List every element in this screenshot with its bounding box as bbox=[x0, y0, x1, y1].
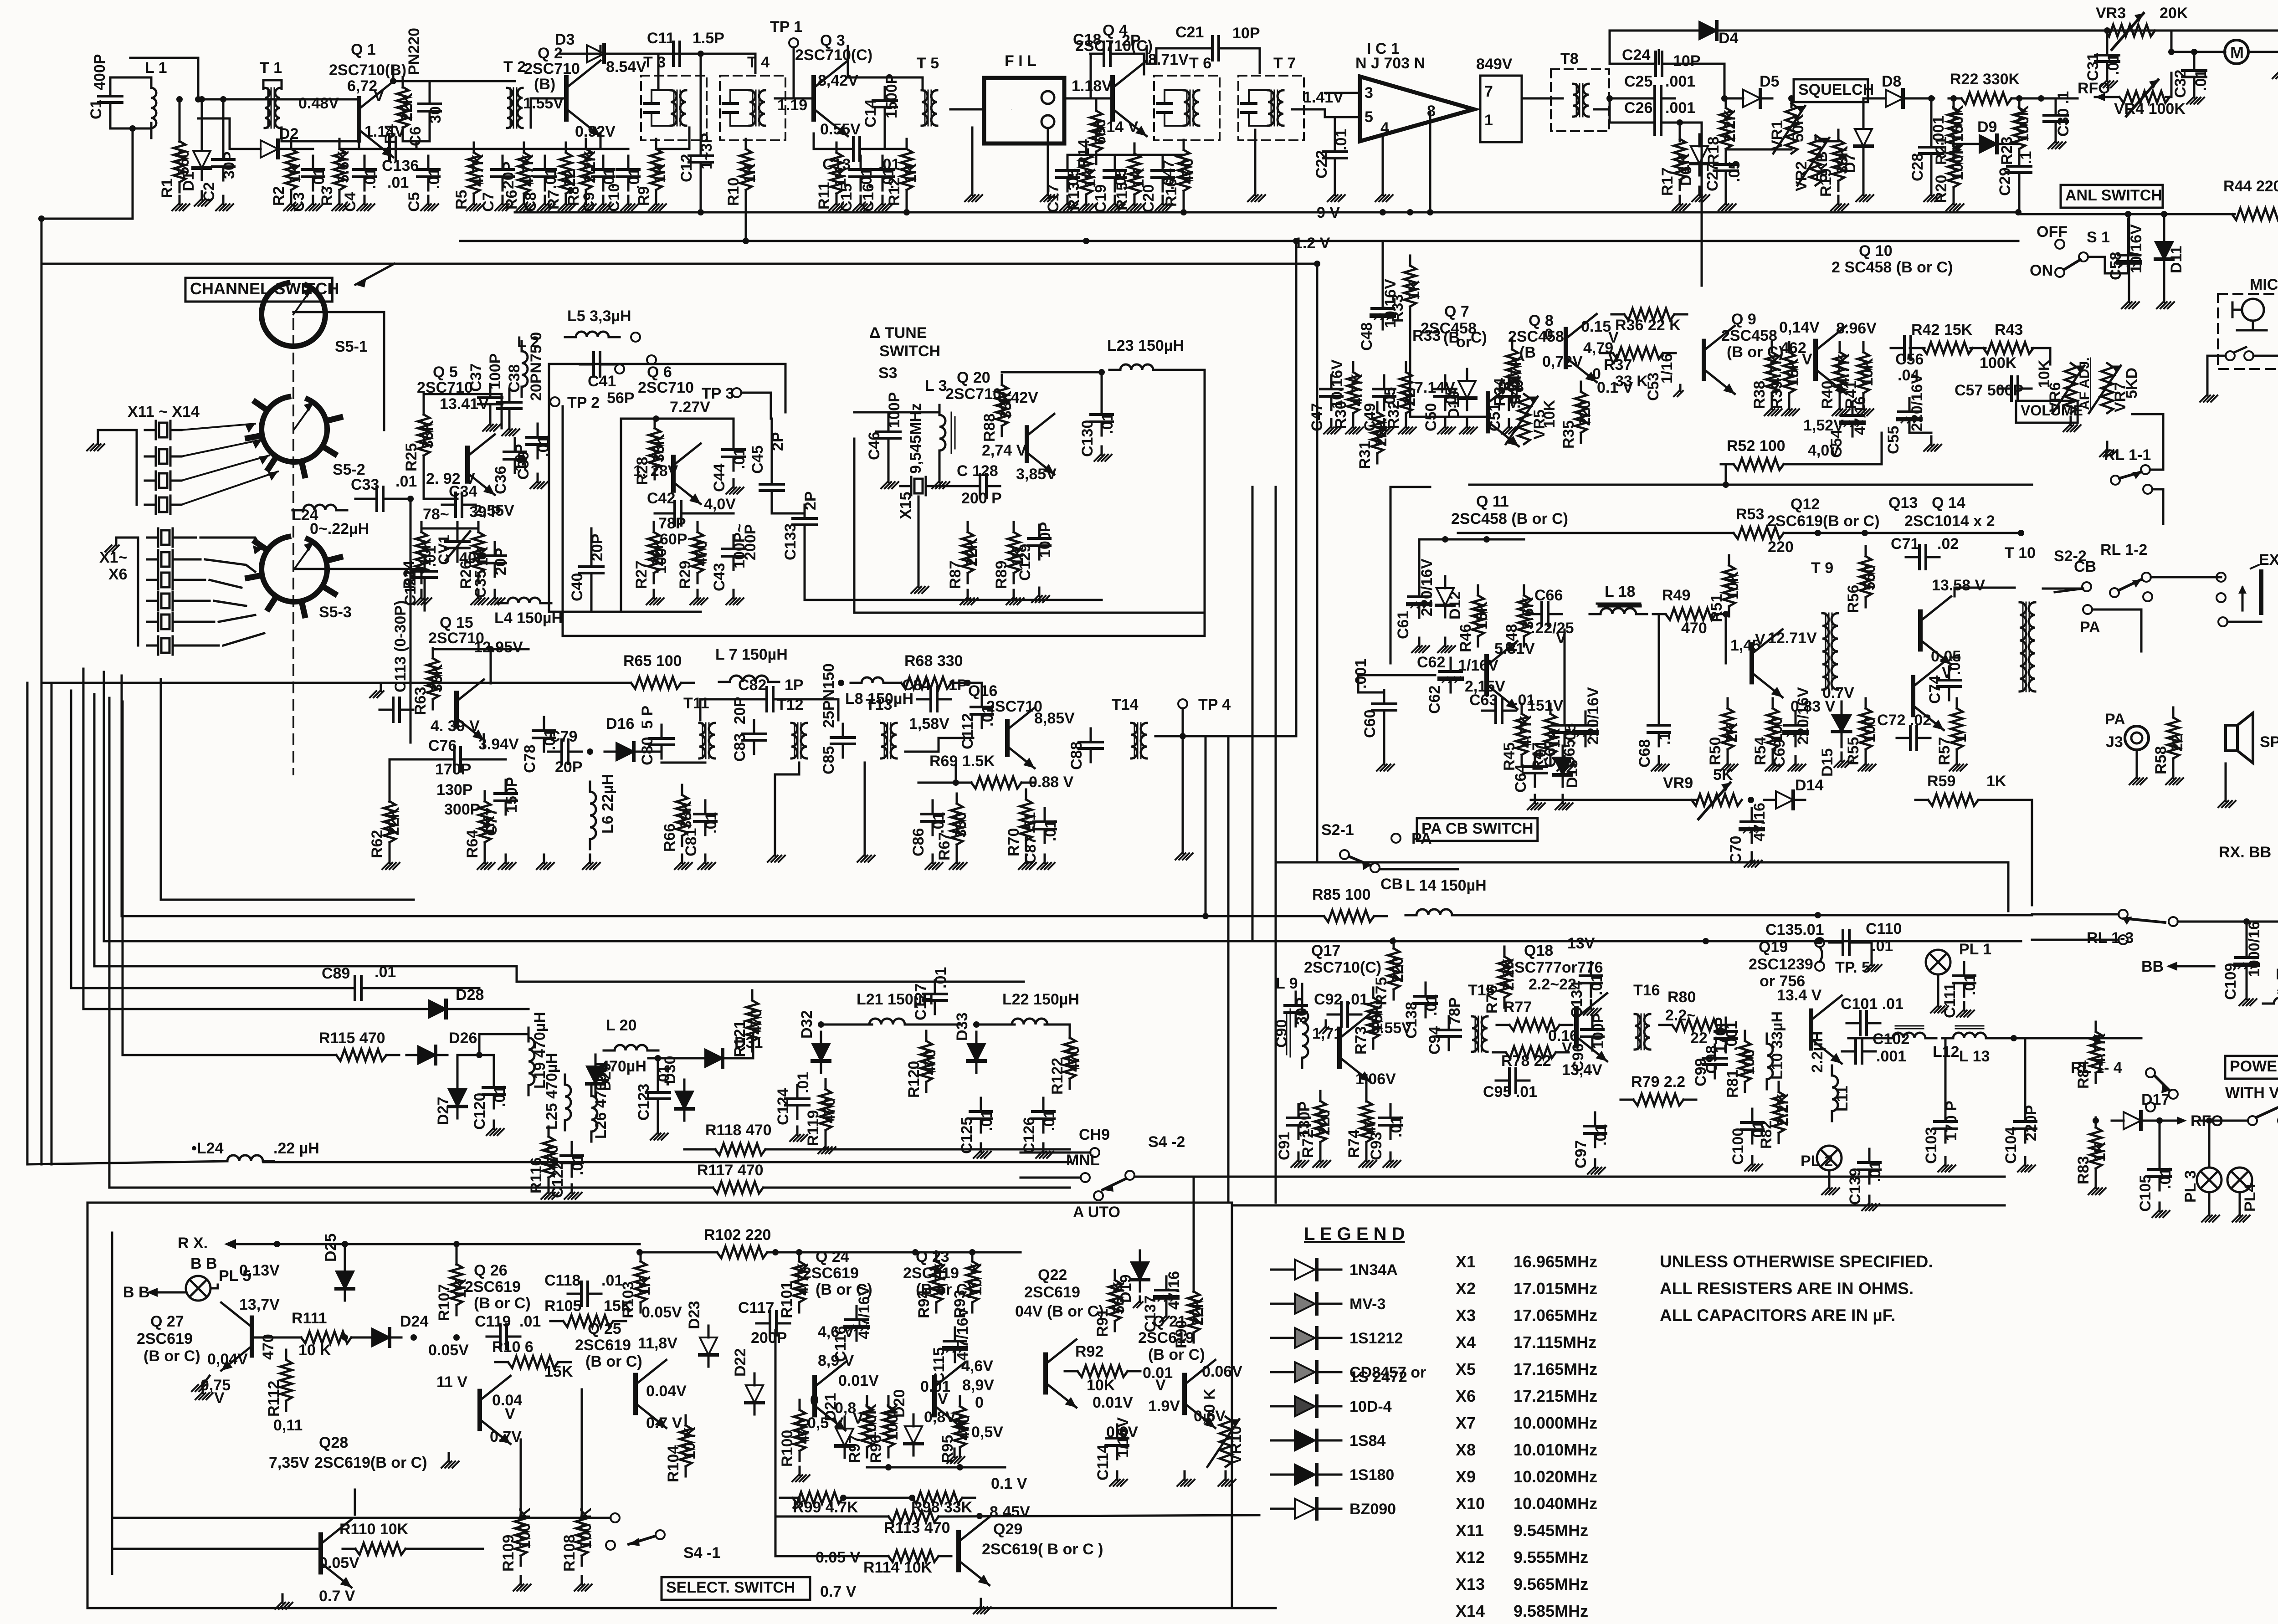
svg-text:10 K: 10 K bbox=[298, 1342, 331, 1359]
svg-text:2K: 2K bbox=[1723, 722, 1740, 743]
resistor R108 bbox=[576, 1505, 588, 1566]
wire q12b2 bbox=[1725, 614, 1727, 663]
label TUNE bbox=[869, 324, 940, 360]
diode D3 bbox=[575, 45, 616, 62]
transistor Q23 bbox=[934, 1362, 965, 1430]
svg-text:R73: R73 bbox=[1352, 1026, 1370, 1055]
label C28 bbox=[1909, 116, 1947, 181]
inductor L21 bbox=[858, 1019, 916, 1025]
ground bbox=[1041, 187, 1058, 201]
svg-text:T 10: T 10 bbox=[2005, 544, 2036, 562]
wire C14 drop bbox=[884, 119, 886, 149]
wire r69 row l bbox=[918, 782, 970, 784]
svg-text:10.020MHz: 10.020MHz bbox=[1514, 1467, 1597, 1486]
svg-text:C34: C34 bbox=[449, 483, 477, 500]
label C96 bbox=[1570, 1013, 1607, 1072]
svg-text:1K: 1K bbox=[1406, 280, 1423, 300]
ground bbox=[421, 196, 438, 210]
jack J2 bbox=[2251, 565, 2261, 613]
capacitor CV1 bbox=[446, 528, 469, 562]
label C123 bbox=[635, 1065, 672, 1121]
diode D20 bbox=[905, 1414, 922, 1455]
wire mnl row bbox=[1021, 1177, 1081, 1179]
legend diode 10D-4 bbox=[1271, 1396, 1341, 1416]
label R46 bbox=[1457, 601, 1491, 652]
wire j2 sleeve bbox=[2227, 621, 2261, 623]
svg-text:220: 220 bbox=[1576, 400, 1594, 426]
svg-text:680: 680 bbox=[1092, 119, 1109, 145]
svg-text:100 K: 100 K bbox=[577, 1507, 595, 1549]
capacitor C51 bbox=[1498, 375, 1520, 410]
label 005 07 bbox=[816, 1549, 861, 1600]
svg-text:17.115MHz: 17.115MHz bbox=[1514, 1333, 1596, 1352]
svg-text:C64: C64 bbox=[1512, 764, 1529, 793]
node r69a bbox=[953, 779, 959, 786]
svg-text:X11 ~ X14: X11 ~ X14 bbox=[128, 403, 200, 420]
transistor Q24 bbox=[815, 1362, 846, 1430]
label R40 bbox=[1819, 353, 1852, 409]
svg-text:D12: D12 bbox=[1447, 591, 1464, 620]
svg-text:C9: C9 bbox=[580, 192, 598, 212]
svg-text:R46: R46 bbox=[1457, 624, 1474, 652]
node n4 bbox=[220, 96, 226, 102]
wire c60 drop bbox=[1358, 675, 1384, 692]
ground bbox=[1412, 638, 1429, 652]
label C46 bbox=[866, 392, 903, 460]
resistor R51 bbox=[1723, 555, 1735, 616]
label T9 bbox=[1811, 559, 1833, 577]
svg-text:C36: C36 bbox=[492, 466, 509, 494]
label R55 bbox=[1845, 717, 1878, 765]
terminal S1 off bbox=[2055, 240, 2064, 249]
label R97 bbox=[846, 1403, 880, 1463]
resistor R8 bbox=[580, 139, 592, 200]
ground bbox=[1291, 1153, 1308, 1167]
label VR10 bbox=[1201, 1388, 1245, 1465]
label C51 bbox=[1486, 379, 1524, 431]
ground bbox=[538, 196, 555, 210]
label T4 bbox=[747, 54, 770, 71]
wire c103 t bbox=[1945, 1038, 1947, 1108]
crystal X14 bbox=[145, 496, 181, 514]
svg-text:R2: R2 bbox=[270, 186, 287, 206]
capacitor C124 bbox=[785, 1085, 809, 1119]
svg-text:VR4 100K: VR4 100K bbox=[2114, 100, 2186, 118]
ground bbox=[2187, 89, 2204, 104]
svg-text:D5: D5 bbox=[1760, 73, 1779, 90]
wire left main vertical bbox=[41, 219, 43, 1164]
wire pl2g bbox=[1828, 1170, 1831, 1180]
terminal j2b bbox=[2216, 593, 2226, 602]
wire C11 to T4 bbox=[701, 54, 755, 73]
svg-text:.001: .001 bbox=[1665, 73, 1695, 90]
ground bbox=[596, 196, 613, 210]
svg-text:0.05V: 0.05V bbox=[319, 1554, 359, 1572]
label box VOLUME bbox=[2016, 401, 2083, 423]
label T1 bbox=[260, 59, 282, 77]
crystal X1 bbox=[147, 528, 184, 547]
capacitor C34 bbox=[442, 493, 476, 517]
svg-text:C92 .01: C92 .01 bbox=[1314, 991, 1368, 1008]
wire vertA bbox=[1205, 736, 1207, 916]
svg-text:RL 1-1: RL 1-1 bbox=[2104, 446, 2151, 464]
node r107n bbox=[453, 1241, 460, 1247]
resistor R92 bbox=[1065, 1365, 1140, 1377]
svg-text:C45: C45 bbox=[749, 446, 766, 474]
wire d31 r bbox=[728, 1035, 753, 1058]
capacitor C90 bbox=[1285, 992, 1307, 1026]
legend diode 1N34A bbox=[1271, 1260, 1341, 1280]
wire C13 row bbox=[814, 133, 841, 149]
resistor R37 bbox=[1600, 347, 1676, 359]
wire r118 row bbox=[684, 1148, 703, 1151]
capacitor C44 bbox=[723, 436, 744, 471]
ground bbox=[1377, 756, 1394, 771]
label C19 bbox=[1092, 169, 1129, 213]
resistor R42 bbox=[1910, 342, 1986, 354]
ground bbox=[726, 479, 744, 494]
label C13 bbox=[822, 156, 900, 173]
svg-text:OFF: OFF bbox=[2037, 223, 2068, 241]
transistor Q13 bbox=[1920, 596, 1951, 664]
label R19 bbox=[1817, 145, 1851, 197]
label D24 bbox=[400, 1313, 428, 1330]
svg-text:R42 15K: R42 15K bbox=[1911, 321, 1973, 338]
svg-text:17.065MHz: 17.065MHz bbox=[1514, 1306, 1597, 1325]
label C124 bbox=[775, 1072, 812, 1125]
svg-text:470: 470 bbox=[260, 1334, 277, 1360]
wire fbox bbox=[517, 981, 1024, 983]
ground bbox=[498, 855, 516, 869]
node r21n bbox=[1950, 95, 1957, 102]
label 46a bbox=[818, 1323, 854, 1369]
label T16 bbox=[1633, 982, 1660, 999]
resistor R98 bbox=[899, 1492, 975, 1504]
svg-text:33K: 33K bbox=[997, 390, 1015, 419]
svg-text:100P: 100P bbox=[487, 353, 504, 389]
label R79 bbox=[1631, 1073, 1685, 1091]
svg-text:MV-3: MV-3 bbox=[1349, 1296, 1385, 1313]
svg-text:100: 100 bbox=[1740, 1049, 1758, 1075]
svg-text:X6: X6 bbox=[108, 566, 128, 583]
capacitor C64 bbox=[1523, 753, 1547, 787]
ground bbox=[559, 196, 576, 210]
wire crystal tap bbox=[184, 600, 210, 602]
label C55 bbox=[1885, 374, 1926, 454]
label R80 bbox=[1665, 989, 1708, 1047]
ground bbox=[382, 855, 400, 869]
label PL2 bbox=[1801, 1153, 1833, 1170]
label C88 bbox=[1068, 742, 1085, 770]
label 1.18V bbox=[1072, 77, 1112, 95]
svg-text:849V: 849V bbox=[1476, 56, 1513, 73]
wire pl3 t bbox=[2208, 1121, 2211, 1168]
tp5 arc bbox=[1820, 947, 1822, 962]
ground bbox=[1788, 756, 1806, 771]
svg-text:1: 1 bbox=[1484, 112, 1493, 129]
wire lv 269b bbox=[122, 702, 124, 1055]
capacitor C19 bbox=[1104, 157, 1126, 191]
wire r117 l bbox=[109, 1187, 700, 1189]
capacitor C72 bbox=[1897, 726, 1930, 750]
ground bbox=[1674, 385, 1683, 396]
svg-text:C85: C85 bbox=[820, 746, 837, 774]
ground bbox=[1528, 795, 1545, 809]
label D33 bbox=[954, 1013, 971, 1041]
transformer T13 bbox=[881, 723, 897, 758]
capacitor C61 bbox=[1408, 583, 1430, 618]
svg-text:R63: R63 bbox=[412, 687, 429, 715]
svg-text:R X.: R X. bbox=[178, 1235, 208, 1252]
svg-text:4,0V: 4,0V bbox=[1808, 442, 1840, 459]
label C9 bbox=[580, 168, 618, 212]
svg-text:2SC619: 2SC619 bbox=[1024, 1284, 1080, 1301]
svg-text:S5-1: S5-1 bbox=[335, 338, 368, 355]
label C116 bbox=[832, 1286, 873, 1362]
core L13 bbox=[1955, 1026, 1984, 1029]
transformer T2 bbox=[507, 88, 523, 128]
svg-text:330: 330 bbox=[952, 812, 970, 838]
ground bbox=[192, 1376, 210, 1391]
label D20 bbox=[891, 1389, 908, 1418]
svg-text:C37: C37 bbox=[467, 364, 485, 392]
resistor R15 bbox=[1129, 143, 1140, 205]
label S5-3 bbox=[319, 604, 352, 621]
diode D2 bbox=[249, 140, 290, 158]
svg-text:C104: C104 bbox=[2002, 1127, 2020, 1164]
ground bbox=[1720, 756, 1738, 771]
wire q11 rail bbox=[1419, 538, 1524, 541]
svg-text:C129: C129 bbox=[1016, 544, 1034, 581]
svg-text:T 2: T 2 bbox=[503, 58, 526, 76]
terminal s22a bbox=[2082, 582, 2091, 591]
wire c29 drop bbox=[2018, 149, 2021, 154]
op-amp IC1 bbox=[1360, 77, 1474, 141]
wire q15 coll bbox=[490, 649, 492, 683]
ground bbox=[793, 1498, 802, 1508]
label C26 bbox=[1624, 99, 1695, 117]
label VR6 bbox=[2036, 359, 2064, 412]
resistor R27 bbox=[648, 522, 660, 583]
resistor R55 bbox=[1860, 698, 1872, 759]
label C95 bbox=[1483, 1083, 1537, 1101]
label L9 bbox=[1276, 975, 1298, 992]
node pl3 j bbox=[2156, 1117, 2163, 1124]
svg-text:J3: J3 bbox=[2106, 733, 2123, 751]
svg-text:22K: 22K bbox=[398, 92, 416, 121]
svg-text:R24: R24 bbox=[400, 561, 418, 589]
svg-text:R65 100: R65 100 bbox=[623, 652, 682, 670]
wire c67 top bbox=[1564, 630, 1566, 712]
crystal X13 bbox=[145, 471, 181, 490]
svg-text:R53: R53 bbox=[1736, 506, 1764, 523]
label R33b bbox=[1412, 327, 1487, 351]
wire q20 box b bbox=[854, 612, 1203, 614]
capacitor C65 bbox=[1575, 712, 1596, 746]
resistor R11 bbox=[831, 143, 842, 204]
transformer T14 bbox=[1131, 723, 1147, 758]
svg-text:20PN75 0: 20PN75 0 bbox=[528, 332, 545, 401]
svg-text:WITH VR7: WITH VR7 bbox=[2225, 1084, 2278, 1101]
wire D2 to C3 bbox=[283, 148, 313, 150]
resistor R83 bbox=[2090, 1117, 2102, 1178]
svg-text:C44: C44 bbox=[711, 464, 728, 492]
label C81 bbox=[682, 812, 720, 856]
transistor Q18 bbox=[1576, 993, 1607, 1061]
node tank j bbox=[38, 215, 45, 222]
label D29 bbox=[597, 1063, 614, 1091]
svg-text:C49: C49 bbox=[1361, 403, 1379, 431]
ground bbox=[579, 196, 596, 210]
label R103 bbox=[620, 1276, 653, 1318]
wire Q2 bias row bbox=[503, 148, 628, 150]
resistor R113 bbox=[876, 1511, 951, 1522]
label R73 bbox=[1352, 1003, 1386, 1055]
resistor R114 bbox=[876, 1550, 951, 1562]
wire c104 t bbox=[2024, 1038, 2027, 1108]
node n2 bbox=[176, 96, 183, 102]
svg-text:R80: R80 bbox=[1667, 989, 1696, 1006]
svg-text:RL 1- 4: RL 1- 4 bbox=[2071, 1059, 2122, 1076]
ground bbox=[1032, 588, 1049, 602]
label R72 bbox=[1299, 1109, 1333, 1158]
terminal TP1 bbox=[789, 38, 798, 47]
svg-text:C91: C91 bbox=[1276, 1132, 1293, 1160]
svg-text:R25: R25 bbox=[403, 443, 420, 471]
terminal rl13c bbox=[2119, 935, 2128, 944]
wire rail 1893 bbox=[1276, 862, 2008, 911]
label C27 bbox=[1704, 161, 1743, 191]
svg-text:C29: C29 bbox=[1996, 168, 2014, 196]
wire bus3 bbox=[41, 263, 1317, 265]
wire r118 r bbox=[778, 1148, 1070, 1151]
label C5 bbox=[405, 168, 443, 212]
label c137b bbox=[0, 0, 0, 0]
terminal mic sw a bbox=[2226, 351, 2235, 360]
svg-text:2P: 2P bbox=[1122, 32, 1141, 49]
svg-text:R66: R66 bbox=[661, 824, 678, 852]
label R20 bbox=[1933, 143, 1966, 203]
label box ANL SWITCH bbox=[2061, 185, 2163, 208]
resistor R78 bbox=[1493, 1046, 1569, 1058]
terminal s42 com bbox=[1125, 1171, 1134, 1180]
ground bbox=[1924, 187, 1941, 201]
label R93 bbox=[951, 1263, 985, 1318]
wire l18 bar bbox=[1597, 603, 1640, 605]
label C48 bbox=[1358, 279, 1399, 351]
label T11 bbox=[683, 695, 709, 712]
svg-text:470: 470 bbox=[1179, 158, 1196, 184]
svg-text:R38: R38 bbox=[1751, 381, 1768, 409]
svg-text:220/16V: 220/16V bbox=[1418, 558, 1436, 616]
svg-text:C101 .01: C101 .01 bbox=[1841, 995, 1903, 1013]
label 1.41V bbox=[1303, 89, 1344, 106]
resistor R33 bbox=[1404, 256, 1416, 317]
ground bbox=[216, 196, 233, 210]
svg-text:R1: R1 bbox=[159, 179, 176, 198]
diode D15 bbox=[1832, 702, 1851, 747]
label R105 bbox=[544, 1297, 632, 1315]
label R76 bbox=[1483, 958, 1517, 1014]
svg-text:1N34A: 1N34A bbox=[1349, 1261, 1398, 1279]
wire c130 top bbox=[1101, 372, 1103, 401]
capacitor C93 bbox=[1380, 1104, 1401, 1139]
svg-text:50K: 50K bbox=[1790, 113, 1807, 142]
svg-text:X5: X5 bbox=[1456, 1360, 1476, 1378]
svg-text:1P: 1P bbox=[785, 676, 804, 694]
label R112 bbox=[265, 1381, 282, 1417]
label 0.15V bbox=[1581, 318, 1619, 346]
motor M bbox=[2225, 40, 2248, 64]
wire rx row bbox=[44, 682, 631, 684]
label D8 bbox=[1882, 73, 1901, 90]
capacitor C46 bbox=[877, 418, 900, 452]
svg-text:C50: C50 bbox=[1422, 403, 1440, 431]
svg-text:R49: R49 bbox=[1662, 587, 1690, 604]
svg-text:L E G E N D: L E G E N D bbox=[1304, 1224, 1405, 1244]
svg-text:.01: .01 bbox=[1867, 1161, 1884, 1182]
svg-text:BZ090: BZ090 bbox=[1349, 1501, 1396, 1518]
svg-text:R43: R43 bbox=[1995, 321, 2023, 338]
svg-text:C112: C112 bbox=[959, 713, 976, 749]
capacitor C111 bbox=[1953, 962, 1975, 997]
svg-text:C5: C5 bbox=[405, 192, 423, 212]
label R47 bbox=[1529, 728, 1563, 771]
label D16 bbox=[606, 715, 634, 733]
svg-text:R64: R64 bbox=[464, 830, 481, 858]
svg-text:200P: 200P bbox=[751, 1329, 787, 1347]
svg-text:C117: C117 bbox=[738, 1299, 774, 1317]
diode D22 bbox=[746, 1373, 763, 1414]
inductor L6 bbox=[590, 782, 596, 849]
svg-text:C80: C80 bbox=[639, 737, 656, 765]
svg-text:C28: C28 bbox=[1909, 153, 1926, 181]
label C78 bbox=[521, 729, 559, 773]
svg-text:R56: R56 bbox=[1845, 585, 1862, 613]
label legend BZ090 bbox=[1349, 1501, 1396, 1518]
svg-text:R104: R104 bbox=[665, 1445, 682, 1482]
svg-text:PL 3: PL 3 bbox=[2182, 1170, 2199, 1203]
label C111 bbox=[1941, 974, 1979, 1018]
ground bbox=[1555, 795, 1573, 809]
node d24 j bbox=[453, 1334, 460, 1341]
svg-text:B B: B B bbox=[190, 1255, 217, 1272]
resistor R56 bbox=[1860, 546, 1872, 607]
label R5 bbox=[453, 154, 487, 210]
label T15 bbox=[1468, 982, 1495, 999]
label C53 bbox=[1645, 353, 1676, 401]
wire bias drop bbox=[416, 141, 418, 149]
capacitor C41 bbox=[580, 353, 614, 376]
label R15 bbox=[1113, 168, 1147, 210]
label VR1 bbox=[1769, 113, 1807, 150]
node r53 j bbox=[2018, 530, 2024, 536]
svg-text:TP 2: TP 2 bbox=[567, 394, 600, 411]
svg-text:4.7/16V: 4.7/16V bbox=[954, 1307, 971, 1361]
wire mic out bbox=[2253, 355, 2278, 357]
resistor R54b bbox=[1767, 698, 1779, 759]
wire t14 out bbox=[1155, 735, 1296, 738]
label D27 bbox=[435, 1097, 452, 1125]
label 1.58V bbox=[909, 715, 949, 733]
wire r117 r bbox=[776, 1187, 1070, 1189]
wire c42 row bbox=[655, 512, 662, 515]
label C54 bbox=[1828, 396, 1869, 458]
node l13a bbox=[2011, 1035, 2017, 1041]
wire q28c2 bbox=[354, 1490, 356, 1515]
wire q5 r2 bbox=[457, 522, 459, 528]
svg-text:R87: R87 bbox=[947, 561, 964, 589]
